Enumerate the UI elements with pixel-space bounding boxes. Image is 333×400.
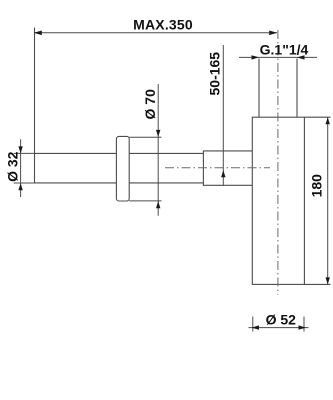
wire left end cap / MAX.350 left extension line [34, 28, 36, 183]
svg-text:Ø 32: Ø 32 [4, 151, 20, 182]
extension tick pipe top left [14, 152, 35, 154]
body top extension line to 180 dimension [304, 116, 330, 118]
arrow Ø52 right [299, 325, 307, 329]
arrow 180 top [326, 117, 330, 124]
pipe tube left segment top wall [35, 152, 117, 154]
arrow MAX.350 right [269, 31, 277, 36]
extension tick flange bottom [129, 200, 161, 202]
body bottom extension line to 180 dimension [304, 283, 330, 285]
pipe tube left segment bottom wall [35, 182, 117, 184]
svg-text:MAX.350: MAX.350 [133, 17, 193, 33]
arrow Ø32 bottom [18, 183, 22, 190]
arrow G.1"1/4 right [297, 55, 305, 59]
extension tick pipe bottom left [14, 182, 35, 184]
svg-text:Ø 52: Ø 52 [266, 312, 297, 328]
svg-text:50-165: 50-165 [207, 52, 223, 96]
arrow 180 bottom [326, 277, 330, 284]
dimension line MAX.350 [34, 32, 277, 34]
dimension line Ø70 vertical [157, 84, 159, 216]
svg-text:180: 180 [309, 174, 325, 198]
dimension line Ø52 horizontal [249, 327, 309, 329]
arrow Ø70 top [156, 130, 160, 137]
pipe tube right segment top wall [129, 152, 203, 154]
horizontal centerline of pipe [165, 167, 270, 169]
dimension line G.1"1/4 [239, 56, 317, 58]
arrow MAX.350 left [34, 31, 42, 36]
connector nut outline [203, 151, 252, 185]
svg-text:G.1"1/4: G.1"1/4 [260, 41, 309, 57]
trap body cylinder [252, 117, 304, 284]
arrow Ø70 bottom [156, 201, 160, 208]
svg-text:Ø 70: Ø 70 [142, 89, 158, 120]
vertical centerline of body [277, 30, 279, 295]
arrow G.1"1/4 left [252, 55, 260, 59]
arrow Ø32 top [18, 146, 22, 153]
extension line body bottom right [303, 317, 305, 332]
inlet pipe left wall [258, 59, 260, 118]
dimension line Ø32 vertical [20, 139, 22, 197]
arrow Ø52 left [252, 325, 260, 329]
extension tick flange top [129, 136, 161, 138]
arrow 50-165 bottom [221, 170, 225, 177]
dimension line 180 vertical [327, 117, 329, 284]
inlet pipe right wall [296, 59, 298, 118]
pipe tube right segment bottom wall [129, 182, 203, 184]
dimension line 50-165 vertical [222, 45, 224, 185]
extension line body bottom left [252, 317, 254, 332]
flange escutcheon [116, 136, 129, 201]
